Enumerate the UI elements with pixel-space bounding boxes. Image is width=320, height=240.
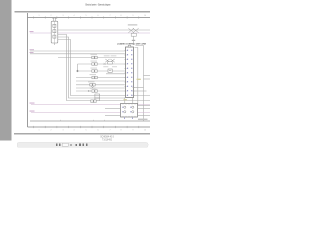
ground bus [30,120,150,122]
svg-text:5: 5 [86,129,87,131]
frame left border [27,13,29,127]
connector pair S4 [90,83,95,86]
wire X1 right stub 3 [134,95,151,97]
connector pair S7 [91,100,96,103]
wire label row1 [30,48,35,51]
connector X2 body [121,104,138,118]
wire right stub r1 [144,75,151,77]
shield hatch box [95,94,100,101]
wire right drop 1 [135,48,138,106]
ignition switch symbol [105,59,114,64]
label S0 [91,53,98,56]
wire K1 loop outer [58,35,150,101]
wire X2 right stub 2 [138,115,151,117]
svg-text:3: 3 [63,15,64,17]
svg-text:LOADING CONTROL UNIT CONN: LOADING CONTROL UNIT CONN [117,42,146,45]
wire bus +30 [58,29,150,31]
wire row to pin 4 [78,63,125,65]
label bus +15 [30,30,34,33]
wire row to pin 2 [30,53,125,55]
wire row to pin 9 [76,84,125,86]
wire row to pin 1 [30,50,125,52]
label diode pack [128,24,138,25]
connector pair S0 [92,56,97,59]
connector X2 pin numbers [122,107,131,113]
wire X1 right stub 1 [134,87,144,89]
wire X1 right stub 2 [134,90,147,92]
connector X2 sockets [124,106,134,113]
wire K1 loop inner [58,40,125,96]
svg-text:4: 4 [74,129,75,131]
connector X1 pin numbers [127,50,128,96]
wire violet bus L1 [31,104,150,106]
header rule [15,11,151,12]
wire row to pin 7 [76,77,125,79]
ground label [138,119,148,120]
wire right drop 2 [136,46,144,122]
wire right stub r2 [144,78,151,80]
label S1 [91,60,98,63]
label bus L2 [30,110,35,113]
wire K1 loop middle [58,37,125,98]
viewer sidebar [0,0,12,141]
label switch a [104,54,110,57]
wire X1 to X2 link left [124,98,126,104]
connector pair S5 [92,90,97,93]
frame zone ticks bottom [34,126,139,128]
frame bottom border [28,126,151,128]
node junction [76,70,79,73]
ground bus ticks [61,120,105,121]
label node a [132,40,135,41]
frame zone numbers bottom [39,129,147,131]
wire bus +15 violet [30,32,150,34]
viewer toolbar [17,142,148,147]
label switch b [111,54,117,57]
connector pair S3 [92,76,97,79]
svg-text:10: 10 [144,15,146,17]
svg-text:9: 9 [133,129,134,131]
fuse module K1 [51,21,58,43]
svg-text:5: 5 [86,15,87,17]
wire row to pin 5 [78,70,125,72]
svg-text:Electrical system - Schematic: Electrical system - Schematic diagram [86,3,111,7]
svg-text:8: 8 [121,15,122,17]
wire X1 to X2 link right [132,98,134,104]
svg-text:SCHEMA 40-3: SCHEMA 40-3 [100,136,114,139]
wire diode pack drop [133,36,135,45]
switch box S8 [108,69,112,72]
svg-text:6: 6 [98,15,99,17]
svg-text:7: 7 [110,129,111,131]
wire row to pin 11 [76,90,125,92]
svg-text:3: 3 [63,129,64,131]
frame top border [28,17,151,19]
svg-text:1: 1 [39,15,40,17]
diode pack symbol top right [128,28,138,33]
wire X2 left stub 2 [105,115,121,117]
wire X2 right stub 1 [138,105,151,107]
frame zone numbers top [39,15,147,17]
connector X1 pins right [133,88,135,96]
wire row to pin 3 [58,57,125,59]
svg-text:9: 9 [133,15,134,17]
wire row to pin 8 [76,80,125,82]
connector X1 pins left [125,51,127,96]
splice dots [88,90,89,91]
wire K1 bottom stub [54,43,56,45]
svg-text:4: 4 [74,15,75,17]
label S2 [91,67,98,70]
terminal pins of K1 [52,18,56,21]
wire X2 right stub 1b [138,108,151,110]
wire row to pin 10 [76,87,125,89]
wire marker yellow [137,79,141,80]
connector X1 body [126,45,134,97]
crossover X [91,86,95,89]
footer rule [14,133,150,135]
svg-text:7: 7 [110,15,111,17]
connector pair S1 [92,63,97,66]
label bus L1 [30,102,35,105]
wire marker yellow 2 [124,99,127,100]
wire branch vertical [77,64,79,71]
label S3 [90,73,97,76]
wire row to pin 6 [106,73,125,75]
svg-text:T1016492: T1016492 [102,139,113,141]
connector X2 pin numbers bottom [124,118,133,119]
toolbar icons [56,143,88,146]
wire label row2 [30,51,34,54]
junction mark row4 [104,63,106,65]
svg-text:6: 6 [98,129,99,131]
svg-text:8: 8 [121,129,122,131]
connector pair S2 [92,70,97,73]
frame zone ticks top [34,16,139,18]
wire X2 left stub 1 [105,108,121,110]
svg-text:10: 10 [144,129,146,131]
connector X2 top hatches [123,104,135,118]
label S5 [90,87,97,90]
connector X1 pin numbers right column [131,50,132,96]
svg-text:2: 2 [51,15,52,17]
diode pack box [131,33,136,36]
svg-text:2: 2 [51,129,52,131]
svg-text:1: 1 [39,129,40,131]
label S8 b [112,65,117,68]
wire violet bus L2 [31,112,150,114]
label S4 [88,80,95,83]
label S8 a [103,65,108,68]
